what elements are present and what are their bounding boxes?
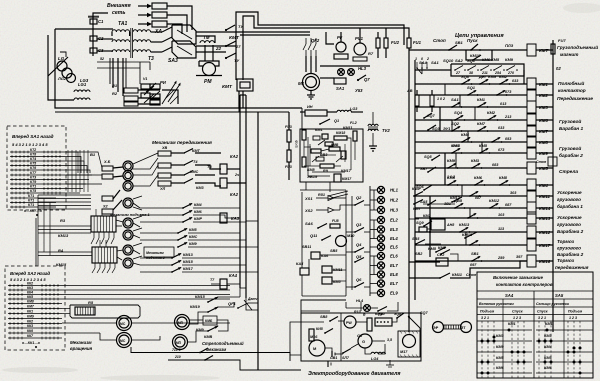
svg-text:М10: М10	[347, 234, 355, 238]
svg-text:Q1: Q1	[334, 119, 339, 123]
boom wires to bus	[218, 296, 240, 298]
svg-text:Стрела: Стрела	[559, 169, 578, 175]
coil LG3 bumps	[74, 98, 90, 100]
wire KA2 to bus	[227, 168, 240, 170]
svg-text:магнит: магнит	[560, 52, 578, 57]
motor M1 inner circle	[306, 77, 317, 88]
svg-text:R51: R51	[318, 193, 325, 197]
rect AN8	[431, 219, 445, 230]
svg-text:073: 073	[498, 148, 505, 152]
svg-text:НL2: НL2	[390, 198, 399, 203]
contactor KMT contact 3	[225, 57, 227, 59]
svg-text:передвижения: передвижения	[555, 265, 589, 270]
hoist motor M6	[123, 218, 133, 228]
rect small mid	[325, 142, 333, 146]
svg-text:Электрооборудование двигател: Электрооборудование двигателя	[308, 370, 401, 377]
rect PU r	[419, 227, 427, 232]
wires podyoma1	[140, 207, 183, 209]
power block outline	[55, 29, 302, 108]
svg-text:КМ1: КМ1	[545, 322, 553, 326]
contact SQ1	[467, 94, 469, 96]
svg-text:КМ19: КМ19	[190, 305, 201, 309]
connector box XA phase B	[152, 12, 167, 18]
wire FU3 vertical	[288, 112, 290, 130]
motor M2 peredv	[123, 161, 133, 171]
svg-text:барабана 1: барабана 1	[557, 203, 583, 209]
fuse FU7 right top	[551, 44, 555, 54]
svg-text:КМ18: КМ18	[336, 131, 345, 135]
wires engine block	[301, 310, 330, 312]
lamp HL4	[364, 305, 371, 312]
svg-text:КМ3: КМ3	[544, 334, 552, 338]
connector box XA phase A	[152, 3, 167, 9]
contact KMT mid a	[183, 152, 185, 154]
motor M4 peredv	[123, 181, 133, 191]
svg-text:РМ: РМ	[204, 79, 212, 85]
transformer TV2 winding top	[368, 124, 378, 126]
contact SQ5 mid ladder	[431, 159, 433, 161]
svg-text:SQ5: SQ5	[424, 155, 432, 159]
transformer TA1 winding row 2	[112, 40, 130, 42]
svg-text:ЭВ19: ЭВ19	[307, 174, 318, 179]
svg-text:КМ6: КМ6	[194, 210, 202, 214]
rung wire КМ8	[415, 141, 527, 143]
contact sw	[467, 217, 469, 219]
coil КМ8 to right rail	[536, 141, 553, 143]
svg-text:КМ13: КМ13	[58, 233, 69, 238]
coil LG4	[371, 352, 385, 354]
svg-text:G3: G3	[357, 334, 363, 338]
wire hoist vertical links	[37, 195, 39, 266]
breaker QF2 contacts	[305, 38, 307, 44]
table center divider	[533, 291, 535, 378]
svg-text:ЕL6: ЕL6	[390, 254, 398, 259]
wire KA4 to boom	[240, 287, 246, 289]
resistor R2	[124, 96, 138, 101]
svg-text:SВ1: SВ1	[471, 251, 480, 256]
svg-text:сеть: сеть	[112, 10, 125, 16]
inner rect extra b	[316, 157, 324, 161]
svg-text:SВ8: SВ8	[320, 315, 328, 319]
svg-text:М16: М16	[310, 335, 318, 339]
ladder inter-rung vertical b	[444, 153, 446, 185]
contact KM11 bottom	[439, 277, 441, 279]
wires MC right	[131, 322, 230, 324]
wire under meters	[320, 65, 370, 67]
svg-text:КМ5: КМ5	[333, 280, 341, 284]
svg-text:вращения: вращения	[70, 346, 93, 351]
coupling hatched cable	[444, 325, 461, 329]
wire KM11 lamp bottom to table	[420, 262, 436, 268]
resistor bank R3	[91, 216, 116, 232]
rung wire КМ3	[415, 106, 527, 108]
rect R9 vertical	[341, 151, 346, 159]
hoist motor M9	[123, 258, 133, 268]
wire table SA2 top link	[35, 218, 37, 266]
svg-text:КМС: КМС	[190, 170, 198, 174]
winding row verticals	[109, 58, 111, 84]
svg-text:SQ8: SQ8	[394, 312, 401, 316]
svg-text:ДЕГ КМ9: ДЕГ КМ9	[478, 74, 497, 79]
svg-text:КМ6: КМ6	[496, 366, 504, 370]
svg-text:Барабана 2: Барабана 2	[557, 228, 584, 234]
signal lamp ЕL6	[377, 252, 384, 259]
svg-text:НL3: НL3	[358, 66, 367, 71]
inner contact diag a	[312, 156, 319, 162]
svg-text:SА4: SА4	[505, 293, 514, 298]
contact KM15 mid	[464, 237, 466, 239]
coil КМ16 to right rail	[536, 260, 553, 262]
wire meters	[326, 32, 334, 44]
contact КМ7	[477, 130, 479, 132]
fuse FU3 a	[287, 130, 291, 142]
contact SB7 mid ladder	[427, 171, 429, 173]
contactor coil КМ8	[527, 136, 536, 148]
svg-text:ЕL3: ЕL3	[390, 227, 398, 232]
contact SB8	[329, 320, 331, 322]
coil КМ6 to right rail	[536, 119, 553, 121]
contact sw	[491, 141, 493, 143]
resistor boxes KB column	[158, 151, 171, 156]
svg-text:1 0 2: 1 0 2	[437, 97, 445, 101]
capacitor C2	[90, 36, 97, 41]
coil KM17 in box	[334, 174, 341, 182]
svg-text:QF1: QF1	[228, 301, 237, 306]
svg-text:R5: R5	[88, 300, 94, 305]
magnet PM body	[199, 61, 219, 66]
lamp group bracket 1	[373, 190, 375, 210]
contact sw	[469, 195, 471, 197]
svg-text:КК4: КК4	[27, 291, 33, 295]
svg-text:КК3: КК3	[27, 324, 33, 328]
svg-text:SQ1: SQ1	[467, 58, 476, 63]
boom right wires	[248, 302, 258, 304]
variable resistor arrow	[162, 82, 176, 104]
header row line 4	[477, 314, 593, 316]
svg-text:Ускорение: Ускорение	[557, 215, 582, 220]
contact SQ3 left	[427, 129, 429, 131]
controller SA1 table dashed border	[7, 126, 66, 210]
svg-text:КМ7: КМ7	[413, 207, 421, 211]
contact KM diagonal 1	[144, 86, 154, 95]
contactor coil КМ6	[527, 114, 536, 126]
signal lamp НL2	[377, 196, 384, 203]
svg-text:Q7: Q7	[364, 77, 370, 82]
contact sw	[469, 244, 471, 246]
coil КМ5 to right rail	[536, 167, 553, 169]
svg-text:о—КК1—о: о—КК1—о	[22, 341, 41, 345]
svg-text:303: 303	[510, 191, 517, 195]
svg-text:SВ7: SВ7	[420, 167, 428, 171]
contact SQ8	[461, 83, 463, 85]
fuse in box left b	[302, 157, 306, 167]
battery GB1	[331, 351, 333, 357]
wire bus right of lamps	[300, 189, 306, 191]
contact SQ9 mid ladder	[423, 225, 425, 227]
connector XA resistor d	[102, 209, 113, 214]
stair link 131-142	[467, 131, 469, 142]
svg-text:КМБ: КМБ	[205, 319, 213, 323]
wire hoist bundle 3	[38, 251, 92, 253]
wire capacitors bus	[92, 17, 94, 56]
controller SA2 table dashed border	[5, 266, 65, 350]
title underline	[477, 290, 593, 292]
resistor rect extra b	[141, 93, 150, 98]
svg-text:1 0 2: 1 0 2	[447, 175, 455, 179]
wire lamps top from box	[306, 189, 346, 191]
svg-text:113: 113	[498, 227, 505, 231]
reactor LG third circle	[67, 74, 76, 83]
signal lamp ЕL5	[377, 243, 384, 250]
svg-text:КМ6: КМ6	[544, 366, 552, 370]
svg-text:Ускорение: Ускорение	[557, 190, 582, 195]
rotation motor MC2	[117, 333, 132, 348]
svg-text:SQ8: SQ8	[461, 74, 470, 79]
svg-text:КМ5: КМ5	[428, 246, 437, 251]
svg-text:Грузоподъемный: Грузоподъемный	[557, 44, 598, 50]
wire bundle SA1 to routing	[63, 152, 78, 173]
motor M1 outer circle	[303, 74, 320, 91]
engine ground	[389, 360, 391, 365]
wires transformer down to resistor bank	[112, 58, 114, 88]
contact KM5 bottom ladder	[435, 251, 437, 253]
contact KM10 eng	[377, 310, 379, 312]
svg-text:КМ13: КМ13	[459, 222, 470, 227]
svg-text:02: 02	[556, 66, 561, 71]
arrow into phase B	[138, 14, 151, 16]
svg-text:SQ4: SQ4	[454, 110, 463, 115]
vertical bus 1	[239, 95, 241, 288]
svg-text:ТУ: ТУ	[234, 58, 239, 63]
coil LG3 top	[337, 110, 351, 112]
group 3 contacts KM13	[171, 257, 173, 259]
svg-text:Х.Б: Х.Б	[103, 160, 111, 164]
contact diagonal extra b	[150, 91, 160, 100]
ladder right rail	[552, 40, 554, 332]
svg-text:SQ10: SQ10	[443, 58, 454, 63]
relay KA6 rect	[311, 252, 320, 259]
svg-text:083: 083	[492, 163, 499, 167]
svg-text:Q3: Q3	[356, 222, 362, 227]
svg-text:КТ2: КТ2	[30, 148, 36, 152]
engine block top left stub	[301, 300, 346, 313]
svg-text:КК6: КК6	[27, 329, 33, 333]
machine ZT circle	[461, 322, 472, 333]
svg-text:SВ11: SВ11	[302, 245, 311, 249]
contact diagonal extra a	[146, 83, 156, 92]
wire right edge of power block	[162, 90, 178, 104]
rect C2 small	[150, 94, 160, 99]
fuse FU2 a	[376, 38, 380, 48]
svg-text:КК3: КК3	[27, 286, 33, 290]
svg-text:М1: М1	[298, 81, 305, 86]
svg-text:FU3: FU3	[285, 165, 292, 169]
svg-text:210: 210	[174, 355, 181, 359]
resistor R7	[353, 57, 367, 61]
svg-text:SА6: SА6	[305, 221, 314, 226]
svg-text:МП: МП	[176, 341, 182, 345]
rung wire КМ9	[415, 152, 527, 154]
wire SA2 bottom right long	[131, 347, 240, 353]
svg-text:ЕL9: ЕL9	[390, 291, 398, 296]
svg-text:Т3: Т3	[148, 56, 154, 62]
rect KM11 small	[322, 266, 332, 273]
contact KM5 r2	[440, 253, 442, 255]
SA1 contact rows group3	[10, 197, 56, 199]
svg-text:R7: R7	[368, 51, 374, 56]
coil КМ1 to right rail	[536, 83, 553, 85]
small contacts right power block	[166, 90, 174, 98]
contact XS row top	[334, 197, 346, 199]
svg-text:G: G	[362, 339, 365, 344]
svg-text:Q6: Q6	[356, 277, 362, 282]
fuse block PR	[375, 318, 392, 326]
top bus wire inner	[243, 16, 409, 38]
svg-text:КМ15: КМ15	[462, 232, 473, 237]
hoist motor M8	[123, 245, 133, 255]
contact SА1	[451, 106, 453, 108]
contact КМ4	[461, 141, 463, 143]
svg-text:КМ1: КМ1	[477, 97, 486, 102]
starter M17 motor	[403, 335, 416, 348]
svg-text:SQ9: SQ9	[416, 221, 424, 225]
rung wire КМ7	[415, 130, 527, 132]
wire three-phase to TM	[196, 36, 215, 43]
svg-text:Х2: Х2	[102, 205, 109, 209]
svg-text:Q11: Q11	[310, 233, 318, 238]
svg-text:1 2 3: 1 2 3	[569, 316, 577, 320]
svg-text:Тормоз: Тормоз	[557, 239, 575, 244]
wire TM down to PM	[204, 45, 206, 61]
svg-text:LG3: LG3	[350, 107, 358, 111]
svg-text:Q4: Q4	[356, 242, 362, 247]
stair link 142-153	[481, 142, 483, 153]
svg-text:НL1: НL1	[390, 188, 399, 193]
contact КМ5	[447, 184, 449, 186]
contact SQ7 left	[423, 117, 425, 119]
svg-text:КМ17: КМ17	[341, 169, 352, 173]
svg-text:SВ5: SВ5	[330, 249, 338, 253]
contactor KMT contact 2	[225, 45, 227, 47]
svg-text:КМР: КМР	[194, 217, 202, 221]
reactor LG circles	[57, 61, 67, 71]
motor M10 circle	[336, 236, 347, 247]
SA1 contact rows group2	[10, 174, 63, 176]
contactor coil КМ3	[527, 101, 536, 113]
svg-text:Стрелоподъемный: Стрелоподъемный	[202, 341, 244, 346]
ground TV2	[369, 145, 377, 147]
svg-text:КМ17: КМ17	[183, 267, 194, 271]
svg-text:ЕL7: ЕL7	[390, 263, 398, 268]
podyoma 2 contacts	[177, 232, 179, 234]
coil КМ11 to right rail	[536, 195, 553, 197]
svg-text:SА1: SА1	[451, 97, 460, 102]
rect KM18	[334, 136, 347, 140]
vertical rail KMT right	[242, 22, 244, 80]
svg-text:КМ6: КМ6	[474, 175, 483, 180]
svg-text:Стоп: Стоп	[466, 273, 477, 277]
coupling hatch marks	[445, 325, 447, 329]
resistor eng left	[309, 329, 314, 341]
contact KM diagonal 2	[144, 94, 154, 103]
lamp group bracket 2	[373, 220, 375, 239]
svg-text:Сальщо рукоятки: Сальщо рукоятки	[536, 302, 570, 306]
svg-text:R3: R3	[60, 218, 66, 223]
wires hoist motors	[116, 220, 123, 222]
svg-text:38: 38	[469, 71, 473, 75]
fuse FU3 b	[287, 150, 291, 162]
ladder inter-rung vertical a	[439, 107, 441, 131]
svg-text:Внешняя: Внешняя	[107, 3, 131, 9]
svg-text:КК2: КК2	[27, 282, 33, 286]
svg-text:Передвижение: Передвижение	[557, 96, 593, 102]
svg-text:УЛ: УЛ	[160, 187, 166, 191]
svg-text:КМТ: КМТ	[229, 35, 240, 41]
wire phase C to switch	[167, 24, 182, 34]
coil LG1 bumps	[74, 90, 90, 92]
wire QF2 to motor M1	[305, 56, 307, 72]
svg-text:270: 270	[507, 71, 514, 75]
svg-text:ЕL8: ЕL8	[390, 272, 398, 277]
svg-text:АВ: АВ	[406, 89, 413, 93]
transformer core lines	[130, 28, 132, 58]
fuse in box right	[353, 131, 357, 141]
svg-text:НL3: НL3	[390, 208, 399, 213]
wire hoists bundle horizontal	[38, 194, 91, 196]
contactor coil КМ13	[527, 212, 536, 224]
contactor coil КМ11	[527, 190, 536, 202]
svg-text:Механизм: Механизм	[70, 340, 92, 345]
wire motor bundle right 2	[133, 158, 158, 169]
svg-text:КМ6 КМ5: КМ6 КМ5	[482, 57, 500, 62]
resistor bank R3 contacts	[93, 232, 95, 238]
switch assembly 3D box bottom	[172, 41, 196, 58]
boom wires b	[187, 331, 208, 342]
svg-text:КМ9: КМ9	[447, 158, 456, 163]
switch SA3 contact 2	[162, 37, 172, 42]
contact КМ3	[471, 167, 473, 169]
svg-text:SЛ7: SЛ7	[342, 356, 350, 360]
wire bottom ladder	[409, 261, 440, 263]
rung wire КМ13	[415, 217, 527, 219]
inner contact diag b	[336, 156, 343, 162]
magnet PM base	[196, 75, 222, 77]
svg-text:Q5: Q5	[356, 254, 362, 259]
wires hoist to mech contacts	[133, 203, 140, 208]
svg-text:КМ2: КМ2	[499, 74, 508, 79]
svg-text:КМ13: КМ13	[183, 253, 194, 257]
lamp group bracket 3	[373, 256, 375, 275]
wire mid horizontal 221	[246, 220, 258, 222]
starter hatches	[400, 331, 402, 334]
arrow into phase C	[138, 23, 151, 25]
wires podyoma2	[140, 232, 178, 234]
starter M17 box	[398, 331, 420, 357]
svg-text:ХS1: ХS1	[304, 196, 313, 201]
ammeter PF circle	[336, 42, 346, 52]
svg-text:SВ1: SВ1	[455, 40, 464, 45]
rect UR	[305, 110, 327, 116]
svg-text:R10: R10	[354, 310, 361, 314]
boom motor M11	[175, 315, 190, 330]
svg-text:Вперед SА1 назад: Вперед SА1 назад	[12, 134, 54, 139]
resistor R9 h	[320, 164, 334, 168]
wire resistor bank to contacts	[138, 89, 160, 91]
contactor coil КМ9	[527, 147, 536, 159]
svg-text:КМ12: КМ12	[489, 198, 500, 203]
coil КМ4 to right rail	[536, 184, 553, 186]
svg-text:LG4: LG4	[371, 357, 379, 361]
